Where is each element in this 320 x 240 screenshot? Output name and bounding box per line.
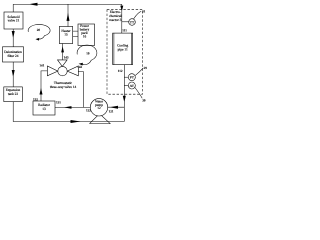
arrow filter->tank bbox=[12, 70, 15, 77]
wire valve 143 to heater bbox=[62, 44, 64, 60]
svg-text:Coolingpipe 11: Coolingpipe 11 bbox=[117, 44, 128, 52]
svg-text:122: 122 bbox=[86, 108, 91, 112]
svg-text:121: 121 bbox=[109, 109, 114, 113]
valve body circle bbox=[58, 66, 67, 75]
arrow valve to heater up bbox=[61, 46, 64, 52]
valve top triangle bbox=[58, 60, 68, 67]
battery stubs bbox=[73, 31, 78, 36]
svg-text:111: 111 bbox=[122, 28, 127, 32]
wire heater top bbox=[67, 4, 69, 26]
arrow 112 down bbox=[123, 96, 126, 103]
leader line to label 30 bbox=[135, 88, 142, 99]
wire top horizontal bbox=[13, 3, 122, 5]
wire valve 142 drop bbox=[78, 72, 83, 108]
solenoid valve 21 bbox=[4, 12, 23, 29]
transmitter AT bbox=[124, 85, 128, 87]
wire valve 141 to radiator top bbox=[41, 71, 47, 101]
expansion tank 22 bbox=[4, 87, 23, 102]
heater 15 bbox=[59, 27, 72, 44]
cooling pipe 11 bbox=[113, 33, 133, 65]
wire tank to bottom bbox=[13, 102, 124, 122]
arrow into pump 121 (left) bbox=[110, 106, 119, 109]
wire filter to tank bbox=[12, 62, 14, 87]
arrow heater to top up bbox=[67, 13, 70, 21]
arrow top-left (flow left into solenoid) bbox=[29, 3, 38, 6]
transmitter TT circle top bbox=[122, 21, 129, 23]
wire pump right bbox=[108, 106, 124, 108]
dashed electro-chemical reactor 3 boundary bbox=[107, 10, 143, 95]
svg-text:30: 30 bbox=[142, 99, 146, 103]
arrow radiator 132 up bbox=[40, 88, 43, 95]
svg-text:112: 112 bbox=[118, 69, 123, 73]
arrow into radiator 131 (left) bbox=[64, 106, 72, 109]
leader line to label 29 bbox=[135, 68, 143, 76]
water pump 12 bbox=[90, 114, 111, 124]
arrow bottom wire right bbox=[71, 120, 81, 123]
loop arrow 10 bbox=[77, 45, 97, 65]
transmitter PT bbox=[124, 76, 128, 78]
arrow down into solenoid branch: solenoid->filter bbox=[12, 31, 15, 38]
loop arrow 20 bbox=[28, 24, 50, 39]
svg-text:143: 143 bbox=[64, 56, 69, 60]
wire left column vertical bbox=[12, 4, 14, 12]
leader line to label 31 bbox=[134, 11, 142, 19]
wire bottom riser to cooling pipe bbox=[123, 65, 125, 122]
wire pump left to radiator bbox=[55, 106, 90, 108]
thermostatic three-way valve 14: left triangle bbox=[47, 66, 57, 76]
svg-text:141: 141 bbox=[39, 63, 44, 67]
valve right triangle bbox=[67, 66, 78, 76]
power battery pack 16 bbox=[78, 24, 95, 46]
svg-text:10: 10 bbox=[86, 52, 90, 56]
wire top drop to cooling pipe bbox=[121, 4, 123, 33]
svg-text:29: 29 bbox=[144, 66, 148, 70]
deionization filter 24 bbox=[3, 47, 24, 62]
svg-text:31: 31 bbox=[142, 10, 146, 14]
svg-text:131: 131 bbox=[56, 100, 61, 104]
svg-text:Electro-chemicalreactor 3: Electro-chemicalreactor 3 bbox=[109, 10, 122, 22]
wire solenoid to filter bbox=[12, 29, 14, 47]
svg-text:142: 142 bbox=[77, 65, 82, 69]
svg-text:Solenoidvalve 21: Solenoidvalve 21 bbox=[7, 15, 20, 23]
svg-text:20: 20 bbox=[37, 28, 41, 32]
svg-text:132: 132 bbox=[33, 97, 38, 101]
radiator 13 bbox=[33, 101, 55, 115]
arrow into cooling pipe top bbox=[120, 6, 123, 12]
